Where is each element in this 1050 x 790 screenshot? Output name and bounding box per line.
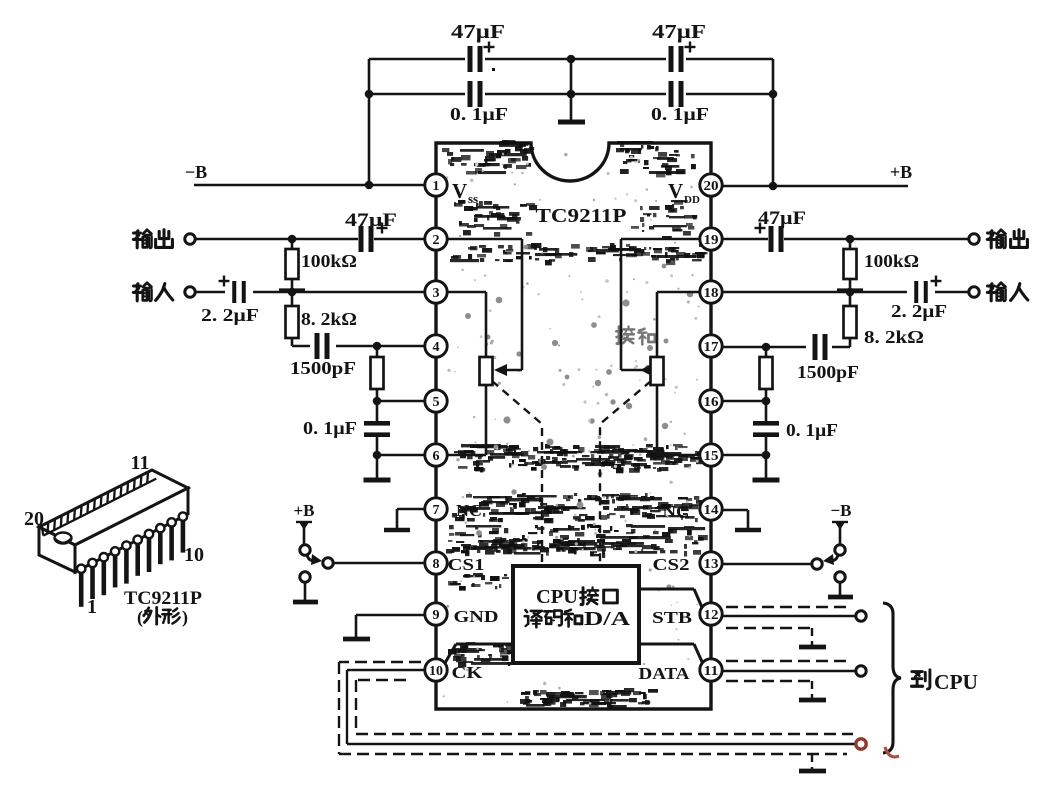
- internal wire pin 2 to wiper (left): [447, 239, 522, 376]
- svg-text:10: 10: [184, 544, 204, 566]
- wire pin 16 to junction: [722, 400, 766, 403]
- switch SW2 pole from -B: [832, 522, 848, 555]
- ground (SW1): [293, 582, 318, 602]
- svg-text:47μF: 47μF: [345, 210, 397, 231]
- red pen artifact: [885, 747, 899, 757]
- capacitor C3 0.1uF (left): [450, 81, 508, 124]
- pin 13: [700, 552, 722, 574]
- wire C10 to pin 18: [722, 291, 907, 294]
- CPU interface block (CPU接口译码和D/A): [513, 566, 639, 663]
- shield dashed outer (CK): [339, 662, 847, 770]
- DIP label 10: [184, 544, 204, 566]
- IC U1 TC9211P body outline: [436, 140, 711, 709]
- svg-text:2. 2μF: 2. 2μF: [891, 301, 947, 321]
- pin 4: [425, 335, 447, 357]
- pin 9 label GND: [454, 607, 499, 626]
- svg-text:V: V: [452, 179, 467, 203]
- IC name label TC9211P: [536, 205, 627, 227]
- capacitor C5 47uF (left output): [345, 210, 397, 252]
- capacitor C7 1500pF: [290, 333, 425, 378]
- wire CPU block to pin 10 CK: [445, 644, 513, 663]
- svg-text:100kΩ: 100kΩ: [301, 251, 357, 271]
- node +B supply (right): [890, 162, 912, 182]
- terminal STB: [856, 611, 866, 621]
- brace to CPU: [883, 603, 901, 753]
- shield dashed inner (CK): [356, 680, 853, 734]
- svg-text:1500pF: 1500pF: [290, 358, 356, 378]
- ground (pin 7 stub): [384, 528, 410, 533]
- svg-text:3: 3: [433, 286, 440, 301]
- svg-text:1: 1: [87, 596, 97, 618]
- pin 16: [700, 390, 722, 412]
- junction input/8.2k right: [837, 288, 863, 297]
- dashed control link P1 to CPU block: [492, 381, 542, 562]
- svg-text:STB: STB: [652, 608, 692, 627]
- wire pin 7 NC stub: [397, 509, 425, 529]
- svg-text:7: 7: [433, 503, 440, 518]
- junction input/8.2k: [279, 288, 305, 297]
- svg-text:DD: DD: [684, 194, 700, 206]
- junction second rail right: [769, 90, 778, 99]
- svg-text:TC9211P: TC9211P: [124, 588, 202, 609]
- junction pin16/C12: [762, 397, 771, 406]
- junction output/100k right: [846, 235, 855, 244]
- internal wire P1 bottom to pin 6: [447, 385, 486, 455]
- node +B (switch): [293, 501, 314, 520]
- switch SW1 throw contact: [323, 558, 333, 568]
- resistor R6 (pin17-pin16): [760, 347, 773, 401]
- pin 7 label NC: [456, 501, 482, 520]
- svg-text:13: 13: [704, 557, 719, 572]
- svg-text:(: (: [137, 607, 143, 628]
- svg-text:NC: NC: [663, 502, 690, 521]
- wire pin 20 to +B: [722, 185, 908, 188]
- internal wire pin 3 to P1 top: [447, 292, 486, 357]
- wire pin 19 to output terminal: [722, 238, 969, 241]
- ground (top center): [558, 120, 585, 125]
- DIP label (外形): [137, 607, 188, 628]
- resistor R1 100k: [286, 239, 358, 292]
- pin 1 name Vss: [452, 179, 478, 206]
- wire CPU block to pin 12 STB: [639, 589, 704, 612]
- wire pin 9 to ground: [356, 615, 425, 638]
- wire pin 10 CK loop to CPU terminal: [347, 670, 856, 744]
- junction pin20 wire / top network: [769, 182, 778, 191]
- svg-text:6: 6: [433, 449, 440, 464]
- junction pin5/C8: [373, 397, 382, 406]
- wire SW2 to pin 13: [722, 563, 812, 566]
- svg-text:0. 1μF: 0. 1μF: [450, 104, 508, 124]
- svg-text:0. 1μF: 0. 1μF: [651, 104, 709, 124]
- svg-text:): ): [182, 607, 188, 628]
- svg-text:CS1: CS1: [448, 555, 485, 574]
- pin 15: [700, 444, 722, 466]
- wire top rail (47uF rail): [369, 58, 773, 61]
- DIP package outline drawing (TC9211P 外形): [39, 470, 188, 607]
- pin 10: [425, 659, 447, 681]
- junction top rail center: [567, 55, 576, 64]
- terminal DATA: [856, 666, 866, 676]
- pin 14: [700, 498, 722, 520]
- capacitor C2 47uF (top right): [652, 21, 706, 72]
- svg-text:47μF: 47μF: [758, 208, 806, 229]
- terminal CK (red artifact): [856, 739, 866, 749]
- wire output terminal to pin 2: [195, 238, 425, 241]
- shield dashed above DATA: [726, 660, 851, 662]
- DIP label 1: [87, 596, 97, 618]
- potentiometer P2 (right channel): [651, 357, 664, 385]
- pin 8: [425, 552, 447, 574]
- pin 9: [425, 603, 447, 625]
- svg-text:100kΩ: 100kΩ: [864, 251, 919, 271]
- svg-text:1500pF: 1500pF: [797, 362, 859, 382]
- svg-text:1: 1: [433, 179, 440, 194]
- pin 11: [700, 659, 722, 681]
- svg-text:15: 15: [704, 449, 719, 464]
- svg-text:CS2: CS2: [653, 555, 690, 574]
- svg-text:−B: −B: [830, 501, 851, 520]
- junction second rail center: [567, 90, 576, 99]
- pin 8 label CS1: [448, 555, 485, 574]
- pin 2: [425, 228, 447, 250]
- resistor R3 (pin4-pin5): [371, 346, 384, 401]
- capacitor C1 47uF (top left): [451, 21, 505, 72]
- terminal 输出 (left output): [133, 230, 195, 248]
- svg-text:17: 17: [704, 340, 719, 355]
- dashed control link P2 to CPU block: [600, 381, 651, 562]
- svg-text:8: 8: [433, 557, 440, 572]
- internal wire pin 18 to P2 top: [657, 292, 700, 357]
- resistor R2 8.2k: [286, 292, 358, 346]
- capacitor C12 0.1uF (right): [753, 401, 838, 455]
- capacitor C9 47uF (right output): [755, 208, 807, 252]
- svg-text:CPU: CPU: [934, 670, 978, 694]
- svg-text:16: 16: [704, 395, 719, 410]
- ground (pin 9): [343, 637, 370, 642]
- terminal 输入 (left input): [133, 283, 195, 301]
- svg-text:GND: GND: [454, 607, 499, 626]
- pin 10 label CK: [452, 663, 484, 682]
- wire pin 14 NC stub: [722, 510, 748, 529]
- ground (pin 14 stub): [735, 528, 761, 533]
- shield dashed below DATA with ground: [726, 681, 812, 699]
- junction second rail left: [365, 90, 374, 99]
- resistor R4 100k (right): [844, 239, 920, 292]
- DIP label 20: [24, 508, 44, 530]
- wire right vertical drop to pin 20: [772, 59, 775, 185]
- ground (below C8 left): [364, 455, 391, 480]
- svg-text:12: 12: [704, 608, 719, 623]
- svg-text:19: 19: [704, 233, 719, 248]
- capacitor C4 0.1uF (right): [651, 81, 709, 124]
- svg-text:5: 5: [433, 395, 440, 410]
- capacitor C8 0.1uF (left): [303, 401, 390, 455]
- wire pin 12 STB to CPU terminal: [722, 615, 856, 617]
- svg-text:+B: +B: [890, 162, 912, 182]
- switch SW1 lower contact: [300, 572, 310, 582]
- svg-text:47μF: 47μF: [652, 21, 706, 43]
- svg-text:14: 14: [704, 503, 719, 518]
- junction output/100k: [288, 235, 297, 244]
- svg-text:8. 2kΩ: 8. 2kΩ: [301, 309, 357, 329]
- pin 12 label STB: [652, 608, 692, 627]
- pin 3: [425, 281, 447, 303]
- wire C6 to pin 3: [253, 291, 425, 294]
- wire pin 15 to junction: [722, 454, 766, 457]
- svg-text:+B: +B: [293, 501, 314, 520]
- switch SW2 throw contact: [812, 559, 822, 569]
- svg-text:TC9211P: TC9211P: [536, 205, 627, 227]
- DIP label 11: [131, 452, 150, 474]
- pin 19: [700, 228, 722, 250]
- wire CPU block to pin 11 DATA: [639, 644, 703, 664]
- wire junction to pin 6: [377, 454, 425, 457]
- svg-text:4: 4: [433, 340, 440, 355]
- internal wire pin 19 to wiper (right): [621, 239, 700, 376]
- pin 18: [700, 281, 722, 303]
- switch SW1 pole from +B: [296, 522, 312, 555]
- svg-text:9: 9: [433, 608, 440, 623]
- DIP label TC9211P: [124, 588, 202, 609]
- resistor R5 8.2k (right): [844, 292, 925, 347]
- pin 5: [425, 390, 447, 412]
- svg-text:2. 2μF: 2. 2μF: [201, 305, 259, 325]
- potentiometer P1 (left channel): [480, 357, 493, 385]
- pin 14 label NC: [663, 502, 690, 521]
- terminal 输入 (right input): [969, 283, 1028, 301]
- wire second rail (0.1uF rail): [369, 93, 773, 96]
- junction pin4/R3: [373, 342, 382, 351]
- label 到CPU: [912, 670, 978, 694]
- svg-text:CK: CK: [452, 663, 484, 682]
- svg-text:8. 2kΩ: 8. 2kΩ: [864, 327, 924, 347]
- pin 7: [425, 498, 447, 520]
- svg-text:10: 10: [429, 664, 443, 679]
- switch SW1 lever: [307, 554, 322, 565]
- svg-text:11: 11: [704, 664, 719, 679]
- svg-text:DATA: DATA: [639, 664, 691, 683]
- wire center stub to ground: [570, 59, 573, 121]
- svg-text:ss: ss: [468, 191, 478, 206]
- capacitor C6 2.2uF (left input): [195, 276, 259, 326]
- pin 11 label DATA: [639, 664, 691, 683]
- wire SW1 to pin 8: [333, 562, 425, 565]
- svg-text:CPU: CPU: [536, 586, 578, 608]
- svg-text:D/A: D/A: [584, 608, 631, 630]
- pin 17: [700, 335, 722, 357]
- svg-text:11: 11: [131, 452, 150, 474]
- wire junction to pin 5: [377, 400, 425, 403]
- svg-text:V: V: [668, 179, 683, 203]
- wire left vertical drop to pin 1: [368, 59, 371, 185]
- shield dashed below STB with ground: [726, 628, 812, 646]
- junction pin6/ground: [373, 451, 382, 460]
- svg-text:20: 20: [24, 508, 44, 530]
- svg-text:20: 20: [704, 179, 719, 194]
- junction pin15/ground: [762, 451, 771, 460]
- junction pin1 wire / top network: [365, 181, 374, 190]
- shield dashed above STB: [726, 606, 851, 608]
- ground (STB shield): [799, 645, 826, 650]
- wire pin 11 DATA to CPU terminal: [722, 670, 856, 672]
- ground (DATA shield): [799, 698, 826, 703]
- svg-text:2: 2: [433, 233, 440, 248]
- node -B (switch): [830, 501, 851, 520]
- wire -B to pin 1: [194, 184, 425, 187]
- pin 6: [425, 444, 447, 466]
- switch SW2 lower contact: [835, 572, 845, 582]
- svg-text:0. 1μF: 0. 1μF: [303, 418, 357, 438]
- switch SW2 lever: [823, 554, 838, 565]
- svg-text:NC: NC: [456, 501, 482, 520]
- node -B supply: [185, 162, 207, 182]
- junction pin17/R6: [762, 343, 771, 352]
- terminal 输出 (right output): [969, 230, 1028, 248]
- svg-text:−B: −B: [185, 162, 207, 182]
- svg-text:18: 18: [704, 286, 719, 301]
- pin 12: [700, 603, 722, 625]
- pin 20: [700, 174, 722, 196]
- capacitor C11 1500pF (right): [722, 334, 859, 382]
- ground (below C12 right): [753, 455, 780, 480]
- ground (CK shield): [799, 769, 826, 774]
- svg-text:47μF: 47μF: [451, 21, 505, 43]
- pin 20 name Vdd: [668, 179, 700, 206]
- svg-text:0. 1μF: 0. 1μF: [786, 420, 838, 440]
- pin 1: [425, 174, 447, 196]
- pin 13 label CS2: [653, 555, 690, 574]
- ground (SW2): [828, 582, 853, 597]
- capacitor C10 2.2uF (right input): [891, 276, 969, 322]
- internal wire P2 bottom to pin 15: [657, 385, 700, 455]
